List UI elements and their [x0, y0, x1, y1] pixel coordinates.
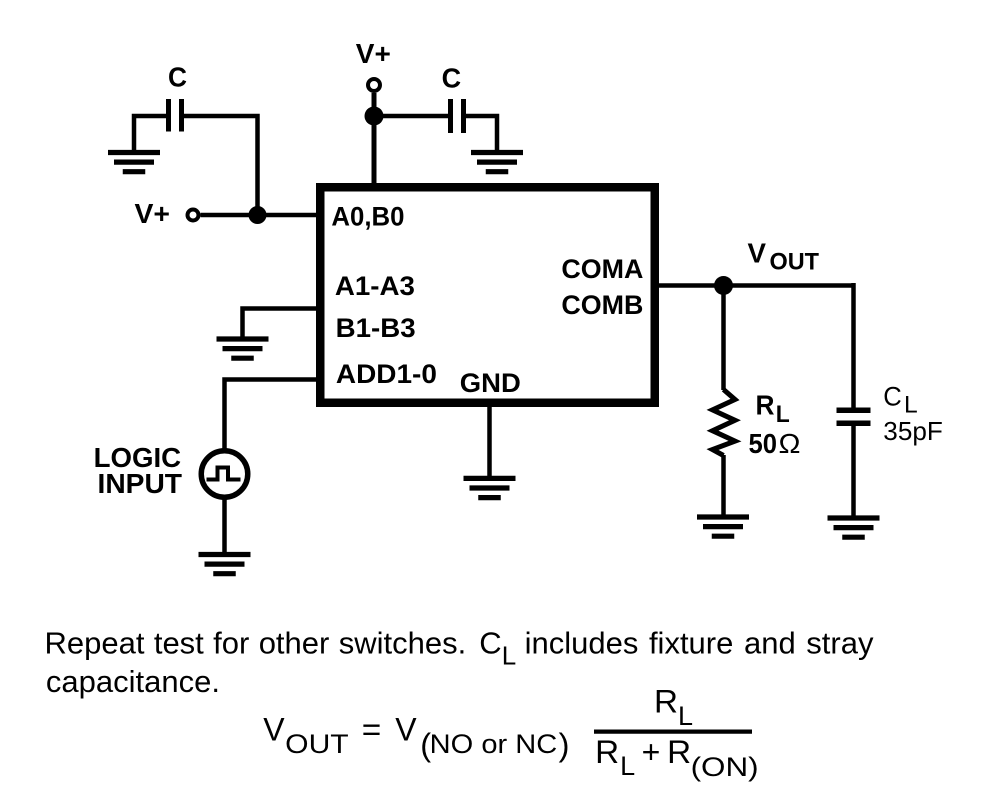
- svg-text:COMB: COMB: [561, 290, 643, 320]
- svg-text:35pF: 35pF: [883, 416, 943, 446]
- svg-text:R: R: [654, 683, 678, 719]
- svg-text:includes fixture and stray: includes fixture and stray: [525, 626, 874, 661]
- svg-text:V+: V+: [135, 198, 171, 229]
- svg-text:R: R: [595, 734, 619, 770]
- svg-text:L: L: [502, 641, 516, 671]
- svg-text:=: =: [362, 712, 382, 748]
- svg-text:L: L: [678, 701, 693, 731]
- svg-text:OUT: OUT: [770, 249, 820, 276]
- svg-text:OUT: OUT: [285, 729, 349, 759]
- svg-text:): ): [559, 727, 570, 763]
- svg-text:(ON): (ON): [691, 752, 759, 782]
- svg-text:COMA: COMA: [561, 254, 643, 284]
- svg-text:V: V: [395, 712, 417, 748]
- svg-text:C: C: [883, 381, 902, 411]
- svg-text:+: +: [642, 734, 661, 770]
- svg-text:Ω: Ω: [779, 428, 801, 459]
- svg-text:L: L: [904, 392, 918, 419]
- svg-text:V: V: [748, 238, 767, 269]
- svg-text:NO or NC: NO or NC: [430, 729, 558, 759]
- svg-text:R: R: [756, 390, 775, 421]
- svg-text:Repeat test for other switches: Repeat test for other switches.: [45, 626, 467, 661]
- svg-text:GND: GND: [460, 368, 521, 398]
- svg-text:A1-A3: A1-A3: [335, 271, 415, 301]
- svg-text:capacitance.: capacitance.: [46, 664, 220, 699]
- svg-text:INPUT: INPUT: [98, 468, 183, 499]
- svg-text:L: L: [620, 751, 635, 781]
- svg-text:V: V: [263, 712, 285, 748]
- svg-text:C: C: [479, 626, 501, 661]
- svg-text:C: C: [168, 62, 187, 93]
- svg-text:ADD1-0: ADD1-0: [336, 359, 437, 389]
- svg-text:R: R: [667, 734, 691, 770]
- svg-text:50: 50: [749, 428, 778, 459]
- svg-text:C: C: [442, 63, 462, 94]
- svg-text:A0,B0: A0,B0: [331, 201, 404, 231]
- svg-text:B1-B3: B1-B3: [336, 313, 416, 343]
- svg-text:L: L: [776, 401, 790, 428]
- svg-text:V+: V+: [356, 38, 391, 69]
